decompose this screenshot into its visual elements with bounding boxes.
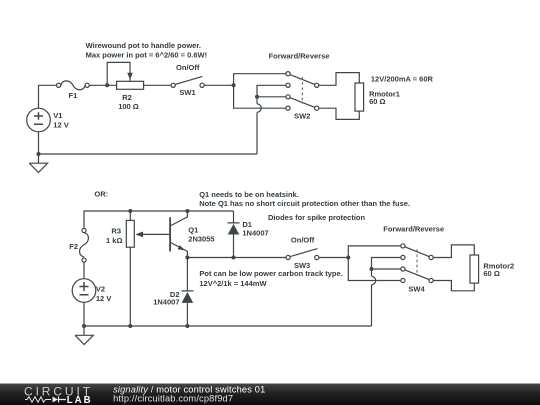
diode D2: [181, 258, 193, 327]
svg-text:1 kΩ: 1 kΩ: [106, 236, 122, 245]
wire F1 to R2: [89, 84, 116, 86]
ground symbol bottom circuit: [75, 326, 93, 345]
wire return vertical to bottom rail 2: [371, 285, 373, 326]
node junction R3 top: [128, 209, 132, 213]
svg-text:OR:: OR:: [94, 190, 108, 199]
svg-text:Max power in pot = 6^2/60 = 0.: Max power in pot = 6^2/60 = 0.6W!: [86, 51, 208, 60]
svg-text:On/Off: On/Off: [176, 63, 200, 72]
voltage source V1: [27, 108, 51, 132]
wire SW4 pole 2 to Rmotor2 bottom: [433, 281, 474, 291]
wire hop over lower wire 2: [372, 276, 376, 284]
wire top rail bottom circuit: [84, 211, 234, 228]
svg-text:Forward/Reverse: Forward/Reverse: [269, 52, 330, 61]
svg-text:60 Ω: 60 Ω: [369, 97, 385, 106]
wire to SW4 throw 3: [372, 268, 401, 270]
wire SW2 pole 1 to Rmotor1 top: [319, 73, 360, 86]
node junction Q1 collector: [185, 209, 189, 213]
transistor Q1: [169, 217, 171, 251]
wire SW4 pole 1 to Rmotor2 top: [433, 245, 474, 258]
svg-text:SW1: SW1: [179, 88, 195, 97]
svg-text:http://circuitlab.com/cp8f9d7: http://circuitlab.com/cp8f9d7: [113, 393, 233, 403]
svg-text:60 Ω: 60 Ω: [483, 269, 499, 278]
wire bottom rail top circuit: [39, 153, 258, 155]
wire bottom rail bottom circuit: [84, 325, 372, 327]
wire V1 top to F1: [39, 85, 57, 108]
node junction R3 bottom: [128, 324, 132, 328]
svg-text:V1: V1: [53, 111, 62, 120]
node junction ground 2: [82, 324, 86, 328]
svg-text:D1: D1: [242, 220, 252, 229]
svg-text:12V^2/1k = 144mW: 12V^2/1k = 144mW: [199, 279, 267, 288]
wire node A down to SW2 throw 4: [234, 85, 286, 108]
fuse F1: [61, 81, 85, 90]
svg-text:SW3: SW3: [294, 261, 310, 270]
node junction throw 3 tap 2: [370, 267, 374, 271]
resistor R3 potentiometer: [129, 211, 131, 326]
switch SW4 DPDT: [405, 247, 429, 257]
svg-text:12 V: 12 V: [96, 294, 111, 303]
wire V2 bottom to ground: [83, 302, 85, 326]
footer bar: [0, 384, 540, 405]
svg-text:2N3055: 2N3055: [188, 234, 214, 243]
voltage source V2: [72, 279, 96, 303]
svg-text:SW4: SW4: [408, 284, 425, 293]
switch SW2 DPDT: [290, 75, 315, 85]
wire hop over lower wire: [257, 104, 261, 112]
node junction wiper tap: [105, 83, 109, 87]
svg-text:12 V: 12 V: [53, 120, 68, 129]
svg-text:LAB: LAB: [67, 395, 93, 405]
node junction Q1 emitter: [185, 256, 189, 260]
diode D1: [228, 211, 240, 258]
wire F2 to V2: [83, 262, 85, 279]
svg-text:Pot can be low power carbon tr: Pot can be low power carbon track type.: [199, 269, 342, 278]
node junction D1 bottom: [232, 256, 236, 260]
wire return vertical to bottom rail: [256, 112, 258, 154]
wire emitter rail to SW3: [187, 257, 286, 259]
wire SW2 throw 2 to return vertical: [257, 85, 286, 104]
logo resistor squiggle: [25, 397, 51, 402]
wire node B up to SW4 throw 1: [348, 246, 401, 258]
wire to SW2 throw 3: [257, 96, 286, 98]
svg-text:1N4007: 1N4007: [242, 229, 268, 238]
svg-text:F2: F2: [69, 242, 78, 251]
wire SW3 to node B: [319, 257, 348, 259]
resistor Rmotor1: [355, 83, 364, 111]
resistor R2 potentiometer: [107, 62, 130, 85]
svg-text:R2: R2: [122, 93, 132, 102]
wire V1 bottom to ground: [38, 132, 40, 154]
wire R2 to SW1: [144, 84, 172, 86]
svg-text:12V/200mA = 60R: 12V/200mA = 60R: [371, 75, 434, 84]
svg-text:Diodes for spike protection: Diodes for spike protection: [268, 213, 366, 222]
svg-text:F1: F1: [69, 91, 78, 100]
node junction throw 3 tap: [255, 95, 259, 99]
node B junction: [346, 256, 350, 260]
node A junction: [232, 83, 236, 87]
node junction ground: [37, 152, 41, 156]
svg-text:Wirewound pot to handle power.: Wirewound pot to handle power.: [86, 41, 201, 50]
svg-text:100 Ω: 100 Ω: [118, 102, 139, 111]
svg-text:SW2: SW2: [294, 111, 310, 120]
logo diode symbol: [53, 397, 59, 403]
ground symbol top circuit: [29, 154, 47, 173]
node junction D2 bottom: [185, 324, 189, 328]
wire node A up to SW2 throw 1: [234, 74, 286, 86]
wire node B down to SW4 throw 4: [348, 258, 401, 281]
svg-text:Q1 needs to be on heatsink.: Q1 needs to be on heatsink.: [199, 190, 299, 199]
wire SW4 throw 2 to return vertical: [372, 258, 401, 277]
svg-text:Note Q1 has no short circuit p: Note Q1 has no short circuit protection …: [199, 199, 410, 208]
svg-text:Q1: Q1: [188, 225, 198, 234]
switch SW1: [175, 76, 202, 84]
wire SW1 to node A: [204, 84, 233, 86]
resistor Rmotor2: [470, 255, 479, 283]
svg-text:R3: R3: [111, 227, 121, 236]
switch SW3: [290, 249, 317, 257]
svg-text:Forward/Reverse: Forward/Reverse: [383, 225, 444, 234]
svg-text:1N4007: 1N4007: [153, 298, 179, 307]
wire SW2 pole 2 to Rmotor1 bottom: [319, 108, 360, 119]
svg-text:On/Off: On/Off: [291, 235, 315, 244]
fuse F2: [80, 233, 89, 257]
svg-text:V2: V2: [96, 284, 105, 293]
